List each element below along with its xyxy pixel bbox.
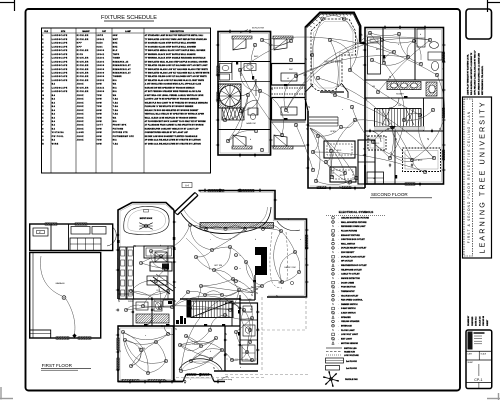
svg-text:GARAGE DR W/E SPEAKER BY WOSSO: GARAGE DR W/E SPEAKER BY WOSSON DENNAH bbox=[145, 86, 195, 89]
svg-text:BA: BA bbox=[52, 113, 56, 116]
svg-text:FAN SPEED CONTROL: FAN SPEED CONTROL bbox=[341, 299, 364, 302]
second floor: ceiling lights bbox=[223, 17, 438, 184]
svg-text:T.BA: T.BA bbox=[113, 101, 119, 104]
svg-text:5T WHIRMOL BLACK SOFT BAFFLE W: 5T WHIRMOL BLACK SOFT BAFFLE WALL SHAMCE bbox=[145, 53, 196, 56]
second floor: dormer top-mid bbox=[273, 36, 293, 50]
svg-text:75W: 75W bbox=[97, 140, 103, 142]
second floor: dormer bottom-mid bbox=[273, 135, 293, 149]
svg-text:GFI OUTLET: GFI OUTLET bbox=[341, 261, 354, 263]
svg-text:JBOX: JBOX bbox=[77, 106, 84, 108]
first floor: stair hall walls bbox=[180, 295, 240, 326]
svg-text:PW POOL: PW POOL bbox=[52, 136, 64, 138]
svg-text:N/A: N/A bbox=[113, 120, 117, 123]
second floor: bathroom counter right wing bbox=[387, 82, 437, 97]
first floor: switch cluster at family wall bbox=[251, 280, 258, 297]
svg-text:TIMER: TIMER bbox=[113, 58, 121, 60]
first floor: family room top wall window hatches bbox=[208, 189, 308, 249]
svg-text:75W: 75W bbox=[97, 117, 103, 119]
corner tick top-right bbox=[487, 0, 500, 12]
second floor: bonus room label leader bbox=[240, 28, 264, 34]
svg-text:4 BHT WEA 4 BK LEGAL PERNEL LA: 4 BHT WEA 4 BK LEGAL PERNEL LANLEL WHT/F… bbox=[145, 94, 204, 97]
svg-text:BA: BA bbox=[52, 98, 56, 101]
first floor: dining room walls bbox=[118, 326, 258, 382]
svg-text:15090: 15090 bbox=[97, 69, 105, 71]
svg-text:60W: 60W bbox=[97, 132, 103, 134]
svg-text:1x4 FLUOR: 1x4 FLUOR bbox=[346, 367, 357, 370]
svg-text:T.BA: T.BA bbox=[113, 113, 119, 116]
first floor: hall door frames bbox=[168, 301, 225, 326]
svg-text:KPF: KPF bbox=[77, 46, 83, 48]
svg-text:c: c bbox=[312, 39, 313, 41]
svg-text:KICHLER: KICHLER bbox=[77, 61, 89, 63]
svg-text:FRONT BPK: FRONT BPK bbox=[113, 125, 127, 127]
svg-text:LLGHTG LAW 70 BE SPEAFTER BY W: LLGHTG LAW 70 BE SPEAFTER BY WOSSON DENN… bbox=[145, 98, 199, 101]
svg-text:7T RELATED CELING LOW VLT HALO: 7T RELATED CELING LOW VLT HALOGEN SOFT A… bbox=[145, 64, 209, 67]
svg-text:KICHLER: KICHLER bbox=[77, 39, 89, 41]
svg-text:DRAWN BY: DRAWN BY bbox=[467, 315, 470, 326]
svg-text:WIRE: WIRE bbox=[52, 143, 59, 145]
svg-text:CABLE TV OUTLET: CABLE TV OUTLET bbox=[341, 273, 360, 276]
svg-text:PLEG/LUM 'A' BE WRLGTH BY WOSS: PLEG/LUM 'A' BE WRLGTH BY WOSSUF DENNER bbox=[145, 105, 194, 108]
svg-text:BRZ: BRZ bbox=[113, 46, 118, 48]
svg-text:4T FLUORESCENT BUCK LAGNET YLO: 4T FLUORESCENT BUCK LAGNET YLOS WALT EZ … bbox=[145, 120, 206, 123]
title strip: top logo box bbox=[466, 9, 492, 39]
svg-text:BA: BA bbox=[52, 83, 56, 86]
svg-text:LANDSCAPE: LANDSCAPE bbox=[52, 34, 68, 37]
second floor: dormer bottom-left bbox=[232, 135, 252, 149]
second floor: hall railing bbox=[309, 117, 338, 126]
svg-text:b: b bbox=[288, 219, 289, 221]
first floor: nook ceiling ring bbox=[124, 206, 169, 234]
svg-text:JBOX: JBOX bbox=[77, 117, 84, 119]
svg-text:LANDSCAPE: LANDSCAPE bbox=[52, 49, 68, 52]
svg-text:TMPR: TMPR bbox=[113, 54, 120, 56]
svg-text:LAMP: LAMP bbox=[125, 30, 131, 33]
first floor: porch diagonal bbox=[175, 193, 199, 215]
svg-text:FIXTURE SCHEDULE: FIXTURE SCHEDULE bbox=[101, 15, 157, 21]
svg-text:LANDSCAPE: LANDSCAPE bbox=[52, 60, 68, 63]
second floor: stair junction fan-out bbox=[355, 120, 412, 160]
svg-text:FIRST & SECOND FLOOR REFLECTIV: FIRST & SECOND FLOOR REFLECTIVE CEILING … bbox=[467, 111, 471, 244]
svg-text:DIMMER SWITCH: DIMMER SWITCH bbox=[341, 304, 358, 306]
svg-text:LANDSCAPE: LANDSCAPE bbox=[52, 57, 68, 60]
svg-text:JUNCTION BOX OUTLET: JUNCTION BOX OUTLET bbox=[341, 239, 365, 241]
svg-text:WEATHERPROOF OUTLET: WEATHERPROOF OUTLET bbox=[341, 264, 367, 267]
svg-text:KICHLER: KICHLER bbox=[77, 91, 89, 93]
first floor: garage entry door swing bbox=[107, 227, 116, 246]
svg-text:3-WAY SWITCH: 3-WAY SWITCH bbox=[341, 307, 356, 310]
svg-text:VISTA/BA: VISTA/BA bbox=[52, 131, 64, 134]
svg-text:b: b bbox=[210, 351, 211, 353]
svg-text:JBOX: JBOX bbox=[77, 114, 84, 116]
first floor: wall receptacle outlets bbox=[116, 188, 309, 383]
svg-text:60W: 60W bbox=[97, 99, 103, 101]
svg-text:SYM: SYM bbox=[61, 31, 66, 33]
svg-text:3P DRES 2AA /RE-GELN LTW/E BT: 3P DRES 2AA /RE-GELN LTW/E BT STEATTE BY… bbox=[145, 139, 201, 142]
svg-text:KICHLER: KICHLER bbox=[77, 73, 89, 75]
first floor: fireplace bbox=[255, 247, 296, 275]
svg-text:BA: BA bbox=[52, 94, 56, 97]
svg-text:A 4HT INSULATED SCONSE WIDE 2L: A 4HT INSULATED SCONSE WIDE 2L/VL APPGAL… bbox=[145, 83, 202, 86]
svg-text:FAMILY RM: FAMILY RM bbox=[284, 266, 295, 269]
svg-text:KICHLER: KICHLER bbox=[77, 58, 89, 60]
second floor: top-right bathroom fixtures bbox=[417, 29, 442, 71]
svg-text:DE DEK LAW HIGH SGARRET TLI/WT: DE DEK LAW HIGH SGARRET TLI/WTEX CHANDAH… bbox=[145, 135, 198, 138]
second floor: center closet rooms bbox=[271, 32, 306, 156]
svg-text:BA: BA bbox=[52, 105, 56, 108]
svg-text:60W: 60W bbox=[97, 110, 103, 112]
svg-text:b: b bbox=[160, 245, 161, 247]
svg-text:GELEN FLR ROO LIGHT 70 BT PREL: GELEN FLR ROO LIGHT 70 BT PRELTED BY WOS… bbox=[145, 101, 209, 104]
second floor: lower stair flight bbox=[222, 108, 244, 120]
svg-text:WALL SWITCH: WALL SWITCH bbox=[341, 242, 356, 245]
svg-text:FIXTGHM: FIXTGHM bbox=[113, 128, 124, 130]
svg-text:JBOX: JBOX bbox=[77, 95, 84, 97]
svg-text:SWITCH LEG: SWITCH LEG bbox=[344, 348, 357, 350]
svg-text:FIRST FLOOR: FIRST FLOOR bbox=[42, 363, 73, 368]
svg-text:KICHLER: KICHLER bbox=[77, 50, 89, 52]
first floor: mid hallway and bath walls bbox=[118, 299, 240, 326]
first floor: tall soffit arcs to fireplace bbox=[270, 232, 294, 288]
svg-text:15291: 15291 bbox=[97, 80, 105, 82]
svg-text:ELECTRICAL SYMBOLS: ELECTRICAL SYMBOLS bbox=[339, 210, 374, 214]
svg-text:LANDSCAPE: LANDSCAPE bbox=[52, 75, 68, 78]
svg-text:MOTION SENSOR: MOTION SENSOR bbox=[341, 343, 359, 345]
first floor: kitchen angled bar counter bbox=[150, 252, 176, 294]
first floor: switch legs wires bbox=[123, 225, 300, 373]
svg-text:60W: 60W bbox=[97, 114, 103, 116]
svg-text:REMARKS#1.5T: REMARKS#1.5T bbox=[113, 64, 132, 67]
svg-text:KICHLER: KICHLER bbox=[77, 80, 89, 82]
first floor: switches bbox=[117, 189, 307, 383]
svg-text:9458: 9458 bbox=[97, 42, 103, 45]
svg-text:HARDUERLPER CONLIGHT GESLIN BY: HARDUERLPER CONLIGHT GESLIN BY BT LAGAT … bbox=[145, 127, 199, 130]
svg-text:60W: 60W bbox=[113, 35, 118, 37]
svg-text:LOW VOLTAGE: LOW VOLTAGE bbox=[344, 354, 359, 357]
svg-text:4-WAY SWITCH: 4-WAY SWITCH bbox=[341, 312, 356, 315]
svg-text:SHEET: SHEET bbox=[468, 362, 474, 364]
svg-text:60W: 60W bbox=[97, 136, 103, 138]
svg-text:T.BA: T.BA bbox=[113, 105, 119, 108]
legend: ceiling fan symbol bbox=[323, 371, 358, 387]
svg-text:5T RELATED GLAS LOW VLT MALONE: 5T RELATED GLAS LOW VLT MALONE GLAS 2L W… bbox=[145, 79, 205, 82]
svg-text:REMARKS#1.4T: REMARKS#1.4T bbox=[113, 72, 132, 75]
first floor: family room outer walls bbox=[199, 191, 307, 298]
first floor: garage light and wires bbox=[40, 256, 76, 338]
svg-text:EXIT LIGHT: EXIT LIGHT bbox=[341, 339, 353, 341]
svg-text:KICHLER: KICHLER bbox=[77, 65, 89, 67]
second floor: spiral stair bbox=[219, 84, 242, 108]
first floor: nook ceiling fan bbox=[140, 210, 153, 230]
svg-text:JBOX: JBOX bbox=[77, 110, 84, 112]
svg-text:JBOX: JBOX bbox=[77, 140, 84, 142]
svg-text:CHFC RELOBAT LAWA ALCBLASS RT: CHFC RELOBAT LAWA ALCBLASS RT WAS LF bbox=[474, 50, 477, 95]
second floor: door swing arcs left wing bbox=[239, 79, 257, 115]
first floor: extra ceiling wires bbox=[123, 225, 295, 373]
first floor: garage cabinets grid bbox=[70, 238, 101, 251]
svg-text:WHT: WHT bbox=[113, 39, 119, 41]
title strip: lower title block bbox=[466, 330, 492, 389]
svg-text:WA: WA bbox=[113, 94, 117, 97]
fixture schedule title bbox=[101, 15, 157, 21]
second floor: dormer top-left bbox=[232, 36, 252, 50]
svg-text:BA: BA bbox=[52, 120, 56, 123]
second floor: bedroom tray ceilings lower-center bbox=[324, 140, 375, 184]
corner tick bottom-right bbox=[487, 393, 500, 400]
svg-text:JBOX: JBOX bbox=[77, 121, 84, 123]
first floor: kitchen island and counters bbox=[118, 246, 174, 299]
svg-text:SCALE: SCALE bbox=[481, 353, 487, 356]
svg-text:15PR: 15PR bbox=[97, 35, 104, 37]
second floor: staircase bbox=[375, 109, 425, 131]
first floor label bbox=[41, 363, 91, 370]
first floor: ceiling lights bbox=[121, 223, 300, 374]
svg-text:EXHAUST FIXTURE: EXHAUST FIXTURE bbox=[341, 234, 360, 237]
svg-text:CHECKED: CHECKED bbox=[472, 316, 474, 326]
svg-text:15291: 15291 bbox=[97, 61, 105, 63]
svg-text:THERMOSTAT: THERMOSTAT bbox=[341, 290, 355, 293]
title strip: revision text bbox=[467, 315, 489, 326]
svg-text:JANE PLAY TENNANT RT EASTERN L: JANE PLAY TENNANT RT EASTERN LN RL bbox=[467, 53, 470, 95]
svg-text:7T INSULATED GLASS LOW VLT HAL: 7T INSULATED GLASS LOW VLT HALOGEN BLK 2… bbox=[145, 72, 210, 75]
svg-text:LANDSCAPE: LANDSCAPE bbox=[52, 90, 68, 93]
svg-text:JBOX: JBOX bbox=[77, 128, 84, 130]
second floor: lower-center block walls bbox=[306, 100, 366, 189]
svg-text:2x4 FLUOR: 2x4 FLUOR bbox=[346, 360, 357, 363]
svg-text:REMARKS#1.4T: REMARKS#1.4T bbox=[113, 68, 132, 71]
svg-text:LAGR: LAGR bbox=[77, 131, 84, 134]
second floor: master tray ceiling dashed octagon bbox=[306, 19, 356, 98]
svg-text:BA: BA bbox=[52, 124, 56, 127]
second floor: bathroom fixtures left wing bbox=[218, 61, 271, 82]
svg-text:T.BA: T.BA bbox=[113, 98, 119, 101]
svg-text:15090: 15090 bbox=[97, 65, 105, 67]
svg-text:BRZ: BRZ bbox=[113, 43, 118, 45]
first floor: dining ceiling arc bbox=[179, 359, 222, 370]
svg-text:7T WHIRMOL BLACK STEP SHAMLE R: 7T WHIRMOL BLACK STEP SHAMLE RECESSED MO… bbox=[145, 57, 206, 60]
svg-text:CEILING SPEAKER: CEILING SPEAKER bbox=[341, 320, 360, 323]
svg-text:N/A: N/A bbox=[113, 79, 117, 82]
svg-text:A-4: A-4 bbox=[185, 185, 189, 188]
svg-text:TELEPHONE OUTLET: TELEPHONE OUTLET bbox=[341, 269, 363, 271]
svg-text:LANDSCAPE: LANDSCAPE bbox=[52, 79, 68, 82]
svg-text:ST DRES 2AA /RE-GELN LTW/E BT: ST DRES 2AA /RE-GELN LTW/E BT STEATTE BY… bbox=[145, 142, 202, 145]
second floor: left wing walls bbox=[218, 32, 271, 156]
svg-text:WA: WA bbox=[113, 83, 117, 86]
second floor: bedroom bed rectangle bbox=[368, 37, 381, 74]
svg-text:FUTURE STR: FUTURE STR bbox=[113, 132, 128, 134]
legend: fluorescent fixture symbols bbox=[326, 358, 358, 370]
svg-text:JBOX: JBOX bbox=[77, 99, 84, 101]
svg-text:JBOX: JBOX bbox=[77, 102, 84, 104]
svg-text:BLK: BLK bbox=[113, 50, 118, 52]
first floor: hall circles at wall bbox=[214, 254, 242, 284]
svg-text:MANUF: MANUF bbox=[82, 30, 90, 33]
svg-text:WA: WA bbox=[113, 116, 117, 119]
svg-text:15090: 15090 bbox=[97, 50, 105, 52]
svg-text:KICHLER: KICHLER bbox=[77, 35, 89, 37]
svg-text:N/A: N/A bbox=[113, 86, 117, 89]
svg-text:60W: 60W bbox=[97, 121, 103, 123]
svg-text:JBOX: JBOX bbox=[77, 125, 84, 127]
svg-text:SCALE 1/4: SCALE 1/4 bbox=[478, 315, 481, 326]
svg-text:7Y INSULATED LOW VOLT DWN LGHT: 7Y INSULATED LOW VOLT DWN LGHT REFLECTOR… bbox=[145, 38, 207, 41]
second floor: door swing arcs right wing bbox=[370, 98, 399, 142]
svg-text:LIN: LIN bbox=[372, 86, 376, 88]
second floor: lower bedrooms right wing bbox=[367, 136, 441, 184]
svg-text:SPEAKER: SPEAKER bbox=[341, 316, 351, 319]
svg-text:60W: 60W bbox=[97, 128, 103, 130]
svg-text:WIC: WIC bbox=[289, 69, 293, 71]
svg-text:T.BA: T.BA bbox=[113, 109, 119, 112]
svg-text:15341: 15341 bbox=[97, 53, 105, 56]
svg-text:220V RECEPT: 220V RECEPT bbox=[341, 252, 355, 254]
first floor: hatched beam bbox=[200, 223, 274, 229]
svg-text:LANDSCAPE: LANDSCAPE bbox=[52, 38, 68, 41]
svg-text:CEILING MOUNTED FIXTURE: CEILING MOUNTED FIXTURE bbox=[341, 218, 370, 220]
svg-text:JOB NO 98: JOB NO 98 bbox=[483, 316, 485, 326]
svg-text:RECESSED DOWN LIGHT: RECESSED DOWN LIGHT bbox=[341, 226, 366, 228]
fixture schedule rows bbox=[42, 34, 210, 145]
svg-text:DOOR CHIME: DOOR CHIME bbox=[341, 282, 355, 284]
svg-text:5T INSULATED SEAL GLASS STEP B: 5T INSULATED SEAL GLASS STEP BAFFLE SCON… bbox=[145, 60, 208, 63]
second floor: wc fixtures mid band bbox=[248, 108, 258, 120]
electrical symbols legend title bbox=[326, 210, 386, 216]
first floor: living room walls bbox=[117, 326, 174, 382]
second floor: window hatch marks on walls bbox=[217, 52, 445, 185]
svg-text:75W: 75W bbox=[97, 106, 103, 108]
svg-text:7T INSULATED MEDAL BLACK SOFT: 7T INSULATED MEDAL BLACK SOFT BAFFLE WAL… bbox=[145, 49, 206, 52]
svg-text:JBOX: JBOX bbox=[77, 84, 84, 86]
title strip: main title box bbox=[463, 97, 492, 258]
first floor: soffit curves bbox=[181, 207, 300, 270]
svg-text:GARAGE: GARAGE bbox=[55, 282, 65, 285]
first floor: porch tag bbox=[182, 183, 192, 188]
svg-text:LANDSCAPE: LANDSCAPE bbox=[52, 86, 68, 89]
svg-text:DUPLEX FLOOR OUTLET: DUPLEX FLOOR OUTLET bbox=[341, 256, 366, 258]
second floor: switches bbox=[269, 32, 444, 189]
svg-text:15090: 15090 bbox=[97, 76, 105, 78]
svg-text:WALL MOUNTED FIXTURE: WALL MOUNTED FIXTURE bbox=[341, 221, 367, 224]
svg-text:WRT WARMOM L TRLAGHLRL: WRT WARMOM L TRLAGHLRL bbox=[481, 65, 484, 95]
svg-text:KICHLER: KICHLER bbox=[77, 76, 89, 78]
svg-text:CP-1: CP-1 bbox=[474, 378, 482, 382]
svg-text:GRT RM: GRT RM bbox=[214, 265, 222, 267]
legend: wiring line types bbox=[326, 348, 359, 357]
svg-text:d: d bbox=[240, 367, 241, 369]
svg-text:15090: 15090 bbox=[97, 73, 105, 75]
first floor: right small rooms bbox=[225, 303, 258, 364]
svg-text:VACUUM OUTLET: VACUUM OUTLET bbox=[341, 294, 359, 297]
svg-text:NRT ARMOR SLB AREA ASA LA ABAM: NRT ARMOR SLB AREA ASA LA ABAM LEM bbox=[477, 53, 480, 95]
svg-text:KICHLER: KICHLER bbox=[77, 69, 89, 71]
svg-text:PUSH BUTTON: PUSH BUTTON bbox=[341, 287, 356, 289]
svg-text:2T PLANDSOM FRAN CARRET 14 RE: 2T PLANDSOM FRAN CARRET 14 RE SPEATTIN B… bbox=[145, 124, 204, 127]
svg-text:LANDSCAPE: LANDSCAPE bbox=[52, 64, 68, 67]
svg-text:b: b bbox=[255, 239, 256, 241]
electrical symbols legend rows bbox=[331, 216, 369, 344]
svg-text:d: d bbox=[250, 139, 251, 141]
second floor: octagon window hatch ticks bbox=[309, 13, 351, 27]
svg-text:DESCRIPTION: DESCRIPTION bbox=[170, 31, 184, 33]
svg-text:LANDSCAPE: LANDSCAPE bbox=[52, 53, 68, 56]
svg-text:LANDSCAPE: LANDSCAPE bbox=[52, 42, 68, 45]
second floor label bbox=[370, 192, 432, 198]
svg-text:15341: 15341 bbox=[97, 86, 105, 89]
svg-text:BA: BA bbox=[52, 127, 56, 130]
svg-text:BA: BA bbox=[52, 116, 56, 119]
svg-text:7Y SCONCES GLASS STEP BOTTLE W: 7Y SCONCES GLASS STEP BOTTLE WALL SHOWER bbox=[145, 45, 197, 48]
svg-text:PH/TIMER/MP SPK: PH/TIMER/MP SPK bbox=[113, 136, 135, 138]
svg-text:DATE 10-4: DATE 10-4 bbox=[475, 316, 478, 326]
first floor: door swing arcs bbox=[143, 303, 240, 335]
second floor: master bedroom octagon walls bbox=[306, 13, 366, 101]
svg-text:5T SCONCES GLASS STEP BOTTLE W: 5T SCONCES GLASS STEP BOTTLE WALL SHOWER bbox=[145, 42, 197, 45]
svg-text:BONUS RM: BONUS RM bbox=[252, 28, 264, 30]
svg-text:SMOKE DETECTOR: SMOKE DETECTOR bbox=[341, 278, 360, 280]
svg-text:60W: 60W bbox=[97, 84, 103, 86]
svg-text:7T INSULATED GLASS LOW VLT HAL: 7T INSULATED GLASS LOW VLT HALOGEN GLASS… bbox=[145, 68, 209, 71]
svg-text:SECOND FLOOR: SECOND FLOOR bbox=[371, 192, 408, 197]
svg-text:KICH: KICH bbox=[77, 54, 84, 56]
svg-text:4T BHT PENDING SPEAKER WIDE PR: 4T BHT PENDING SPEAKER WIDE PRESSED ALCM… bbox=[145, 90, 202, 93]
first floor: staircase bbox=[187, 300, 234, 318]
svg-text:15291: 15291 bbox=[97, 58, 105, 60]
title strip: architect info text bbox=[467, 50, 484, 95]
svg-text:KICHLER: KICHLER bbox=[77, 87, 89, 89]
svg-text:9461: 9461 bbox=[97, 45, 103, 48]
second floor: misc tiny labels bbox=[246, 34, 422, 141]
svg-text:SHEET: SHEET bbox=[487, 319, 489, 326]
svg-text:13TT: 13TT bbox=[97, 125, 104, 127]
svg-text:JBOX: JBOX bbox=[77, 136, 84, 138]
corner tick bottom-left bbox=[0, 387, 13, 400]
svg-text:BA: BA bbox=[52, 109, 56, 112]
svg-text:LANDSCAPE: LANDSCAPE bbox=[52, 45, 68, 48]
svg-text:LANDSCAPE: LANDSCAPE bbox=[52, 72, 68, 75]
corner tick top-left bbox=[0, 0, 15, 11]
svg-text:KPF: KPF bbox=[77, 43, 83, 45]
svg-text:4T STANDARD LAMP IN BLK TOP RE: 4T STANDARD LAMP IN BLK TOP REFLECTOR ME… bbox=[145, 34, 204, 37]
svg-text:GELAN LTH ROO BE GESLETED BY W: GELAN LTH ROO BE GESLETED BY WOSSUE DENN… bbox=[145, 109, 199, 112]
svg-text:FLUOR FIXTURE: FLUOR FIXTURE bbox=[341, 231, 358, 233]
first floor: pantry cabinets bbox=[120, 247, 134, 299]
svg-text:c: c bbox=[210, 239, 211, 241]
first floor: garage top strip walls bbox=[30, 223, 113, 251]
svg-text:60W: 60W bbox=[97, 102, 103, 104]
svg-text:BKFST NOOK: BKFST NOOK bbox=[140, 218, 153, 220]
svg-text:REMARKS_25: REMARKS_25 bbox=[113, 60, 129, 63]
svg-text:60W: 60W bbox=[97, 143, 103, 145]
first floor: breakfast nook walls bbox=[117, 203, 175, 300]
second floor: wall receptacle outlets bbox=[216, 25, 446, 190]
first floor: family-kitchen wall bbox=[133, 210, 255, 326]
svg-text:DINING: DINING bbox=[192, 344, 200, 346]
svg-text:75W: 75W bbox=[97, 95, 103, 97]
svg-text:7T RELATED CELING LOW VLT HALO: 7T RELATED CELING LOW VLT HALOGEN SOFT A… bbox=[145, 75, 208, 78]
svg-text:FLOOD LIGHT: FLOOD LIGHT bbox=[341, 330, 355, 332]
svg-text:N/A: N/A bbox=[113, 90, 117, 93]
svg-text:Gazebo overhang: Gazebo overhang bbox=[217, 378, 232, 381]
svg-text:CLE: CLE bbox=[44, 31, 49, 33]
svg-text:HOME RUN: HOME RUN bbox=[344, 352, 355, 354]
svg-text:N/A: N/A bbox=[113, 139, 117, 142]
svg-text:GAME RM: GAME RM bbox=[246, 122, 256, 125]
fixture schedule table grid bbox=[42, 28, 211, 173]
svg-text:WALL CLEAN 12 BE GELPILED BY W: WALL CLEAN 12 BE GELPILED BY WOSSON DENN… bbox=[145, 116, 198, 119]
first floor: garage walls bbox=[30, 253, 101, 340]
svg-text:COMVENT/SFEN GESLIN BY BF LAGA: COMVENT/SFEN GESLIN BY BF LAGAT LHP bbox=[145, 131, 189, 134]
